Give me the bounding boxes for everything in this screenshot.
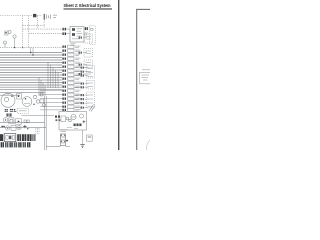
bus arrow connector: [33, 14, 36, 17]
junction dot J3: [66, 140, 68, 142]
bus-to-band drops: [30, 48, 32, 53]
dashed bus wire y47: [0, 47, 62, 49]
connector column 2 pins: [81, 67, 82, 69]
junction dot J2: [32, 54, 33, 55]
upper connector items: [79, 37, 80, 39]
bottom wire 2: [66, 146, 71, 148]
dashed box DB6: [18, 108, 29, 113]
connector CN-B pins: [62, 32, 63, 35]
relay box K1: [70, 27, 84, 43]
relay K1 contacts: [72, 28, 75, 31]
lamp L4: [17, 126, 21, 130]
cdi plus mark: [82, 121, 85, 123]
pin link wires: [66, 28, 70, 30]
ground symbol GND2: [80, 144, 84, 146]
dashed wire to CN-B: [29, 33, 62, 35]
wire to gauges 2: [0, 94, 20, 96]
dashed box DB3: [87, 92, 95, 108]
title underline: [64, 8, 113, 11]
ignition coil ladder: [61, 134, 66, 146]
gauge M2: [22, 97, 32, 107]
battery B1 plus terminal: [43, 14, 45, 20]
sender unit G1: [13, 35, 16, 38]
junction dot: [14, 47, 15, 48]
main harness vertical pair: [44, 96, 46, 150]
switch SW3: [14, 109, 16, 111]
battery B1 plates: [45, 14, 47, 19]
cdi small circles: [66, 117, 69, 120]
speedometer gauge M1: [1, 93, 15, 107]
wire drops to lower cluster: [39, 78, 45, 97]
feeder wires to lower connectors: [40, 91, 62, 110]
cdi inner box: [61, 116, 66, 122]
top dashed bus wire: [0, 15, 42, 17]
second page lower snippet: [146, 140, 150, 150]
sender unit G2: [4, 41, 7, 44]
meter box M3: [9, 118, 14, 124]
bottom wire bus1: [0, 121, 45, 123]
gray marks right: [85, 32, 89, 34]
bottom wire bus2: [0, 127, 46, 129]
cdi coil 2: [80, 114, 84, 118]
dashed box DB5: [84, 49, 93, 58]
indicator cluster: [33, 95, 36, 98]
switch SW1: [5, 109, 7, 111]
dashed wire upper: [23, 25, 45, 27]
connector block row A: [17, 134, 21, 141]
plus cluster: [23, 126, 26, 128]
switch SW2: [10, 109, 12, 111]
connector block row B: [1, 142, 4, 147]
unit box U2: [16, 119, 22, 124]
battery B1 label: [53, 14, 57, 16]
ignition coil label: [61, 129, 68, 131]
small box U3: [11, 126, 16, 131]
second page note box: [140, 70, 151, 84]
slanted harness label: [89, 105, 94, 112]
wire to gauges: [0, 91, 45, 93]
small component P3: [43, 104, 46, 107]
page background: [0, 0, 150, 150]
relay K1 label: [77, 28, 83, 30]
dashed box right of K1: [90, 26, 96, 44]
svg-text:Sheet 2: Electrical System: Sheet 2: Electrical System: [64, 3, 111, 8]
lamp L2: [3, 118, 8, 123]
junction dot J1: [30, 52, 31, 53]
second page left border: [136, 9, 138, 150]
marks cluster: [24, 120, 26, 123]
lamp L3: [6, 126, 10, 130]
cdi unit box: [59, 112, 87, 131]
dashed box DB4: [84, 34, 93, 43]
dashed drop wire x28: [28, 16, 30, 48]
upper dashed box texts: [86, 36, 92, 38]
end block: [0, 134, 3, 141]
dashed box DB5b: [84, 60, 93, 68]
connector CN-A pins: [62, 28, 63, 31]
dotted grid pad: [34, 127, 37, 130]
small component P1: [40, 93, 43, 96]
dashed box DB1: [87, 66, 95, 79]
connector column CN pins and labels: [62, 46, 63, 48]
dashed box DB2: [87, 81, 95, 90]
dashed wire to CN-A: [23, 28, 62, 30]
dot pair: [1, 126, 3, 128]
fuse box cells: [6, 136, 8, 140]
wire nest verticals: [48, 62, 58, 88]
cdi bottom ticks: [67, 126, 72, 128]
tiny connector in dashed box: [91, 28, 93, 30]
small component box: [87, 135, 93, 141]
cdi dark row: [74, 124, 76, 127]
fuse holder pair: [6, 113, 8, 116]
battery drop wire: [43, 20, 45, 28]
fuse box outline: [4, 134, 16, 142]
second page top border: [136, 8, 150, 10]
ignition switch SW0: [5, 31, 8, 35]
dashed box texts: [88, 68, 94, 70]
igniter contacts: [55, 116, 57, 118]
dashed drop wire x22: [22, 16, 24, 48]
connector pin pair right: [85, 27, 86, 30]
left page right border: [118, 0, 120, 150]
small component P2: [40, 99, 44, 103]
bottom wire 1: [46, 146, 60, 148]
cdi coil 1: [71, 114, 76, 119]
below-box marks: [71, 43, 76, 45]
harness wire band: [0, 53, 62, 90]
bottom wire bus3: [22, 115, 55, 117]
dashed drop wire x37: [36, 16, 38, 30]
